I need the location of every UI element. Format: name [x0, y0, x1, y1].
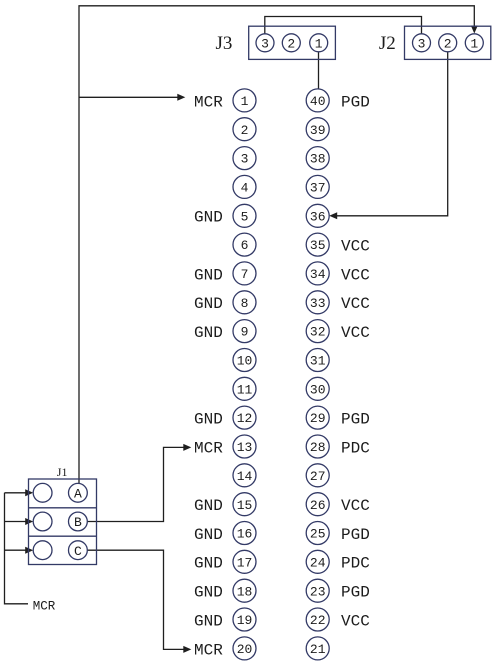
svg-text:19: 19	[237, 613, 253, 628]
svg-text:VCC: VCC	[341, 238, 370, 256]
svg-text:PGD: PGD	[341, 584, 370, 602]
svg-text:27: 27	[310, 469, 326, 484]
svg-text:2: 2	[241, 123, 249, 138]
svg-text:PGD: PGD	[341, 411, 370, 429]
svg-text:17: 17	[237, 555, 253, 570]
svg-text:36: 36	[310, 209, 326, 224]
svg-text:VCC: VCC	[341, 324, 370, 342]
svg-text:1: 1	[315, 36, 323, 51]
svg-text:J1: J1	[57, 465, 68, 479]
svg-text:8: 8	[241, 296, 249, 311]
svg-text:31: 31	[310, 354, 326, 369]
svg-text:VCC: VCC	[341, 612, 370, 630]
svg-text:38: 38	[310, 152, 326, 167]
svg-text:J3: J3	[216, 33, 233, 54]
svg-text:34: 34	[310, 267, 326, 282]
svg-text:29: 29	[310, 411, 326, 426]
svg-text:33: 33	[310, 296, 326, 311]
svg-text:J2: J2	[379, 33, 396, 54]
svg-text:A: A	[74, 486, 82, 501]
svg-text:35: 35	[310, 238, 326, 253]
svg-text:3: 3	[418, 36, 426, 51]
svg-text:MCR: MCR	[33, 600, 56, 614]
svg-text:18: 18	[237, 584, 253, 599]
svg-text:11: 11	[237, 382, 253, 397]
svg-text:B: B	[74, 515, 82, 530]
svg-text:MCR: MCR	[194, 641, 223, 659]
svg-text:21: 21	[310, 642, 326, 657]
svg-text:VCC: VCC	[341, 295, 370, 313]
svg-text:1: 1	[470, 36, 478, 51]
svg-text:3: 3	[261, 36, 269, 51]
svg-text:GND: GND	[194, 295, 223, 313]
svg-text:22: 22	[310, 613, 326, 628]
svg-text:GND: GND	[194, 612, 223, 630]
svg-text:5: 5	[241, 209, 249, 224]
svg-text:16: 16	[237, 527, 253, 542]
svg-text:GND: GND	[194, 209, 223, 227]
svg-text:GND: GND	[194, 324, 223, 342]
svg-text:GND: GND	[194, 584, 223, 602]
svg-text:GND: GND	[194, 526, 223, 544]
svg-text:PGD: PGD	[341, 93, 370, 111]
svg-text:7: 7	[241, 267, 249, 282]
svg-text:39: 39	[310, 123, 326, 138]
svg-text:10: 10	[237, 354, 253, 369]
svg-text:2: 2	[287, 36, 295, 51]
svg-text:4: 4	[241, 181, 249, 196]
svg-text:MCR: MCR	[194, 93, 223, 111]
svg-text:28: 28	[310, 440, 326, 455]
svg-text:24: 24	[310, 555, 326, 570]
svg-text:32: 32	[310, 325, 326, 340]
svg-text:3: 3	[241, 152, 249, 167]
svg-text:PDC: PDC	[341, 555, 370, 573]
svg-text:20: 20	[237, 642, 253, 657]
svg-text:6: 6	[241, 238, 249, 253]
svg-text:GND: GND	[194, 266, 223, 284]
svg-text:1: 1	[241, 94, 249, 109]
svg-text:GND: GND	[194, 497, 223, 515]
svg-text:15: 15	[237, 498, 253, 513]
svg-text:23: 23	[310, 584, 326, 599]
svg-text:37: 37	[310, 181, 326, 196]
svg-text:2: 2	[444, 36, 452, 51]
svg-text:GND: GND	[194, 555, 223, 573]
svg-text:26: 26	[310, 498, 326, 513]
svg-text:PDC: PDC	[341, 439, 370, 457]
svg-text:VCC: VCC	[341, 266, 370, 284]
svg-text:MCR: MCR	[194, 439, 223, 457]
svg-text:C: C	[74, 544, 82, 559]
svg-text:PGD: PGD	[341, 526, 370, 544]
svg-text:GND: GND	[194, 411, 223, 429]
svg-text:14: 14	[237, 469, 253, 484]
svg-text:9: 9	[241, 325, 249, 340]
svg-text:VCC: VCC	[341, 497, 370, 515]
svg-text:13: 13	[237, 440, 253, 455]
svg-text:25: 25	[310, 527, 326, 542]
svg-text:12: 12	[237, 411, 253, 426]
svg-text:40: 40	[310, 94, 326, 109]
svg-text:30: 30	[310, 382, 326, 397]
